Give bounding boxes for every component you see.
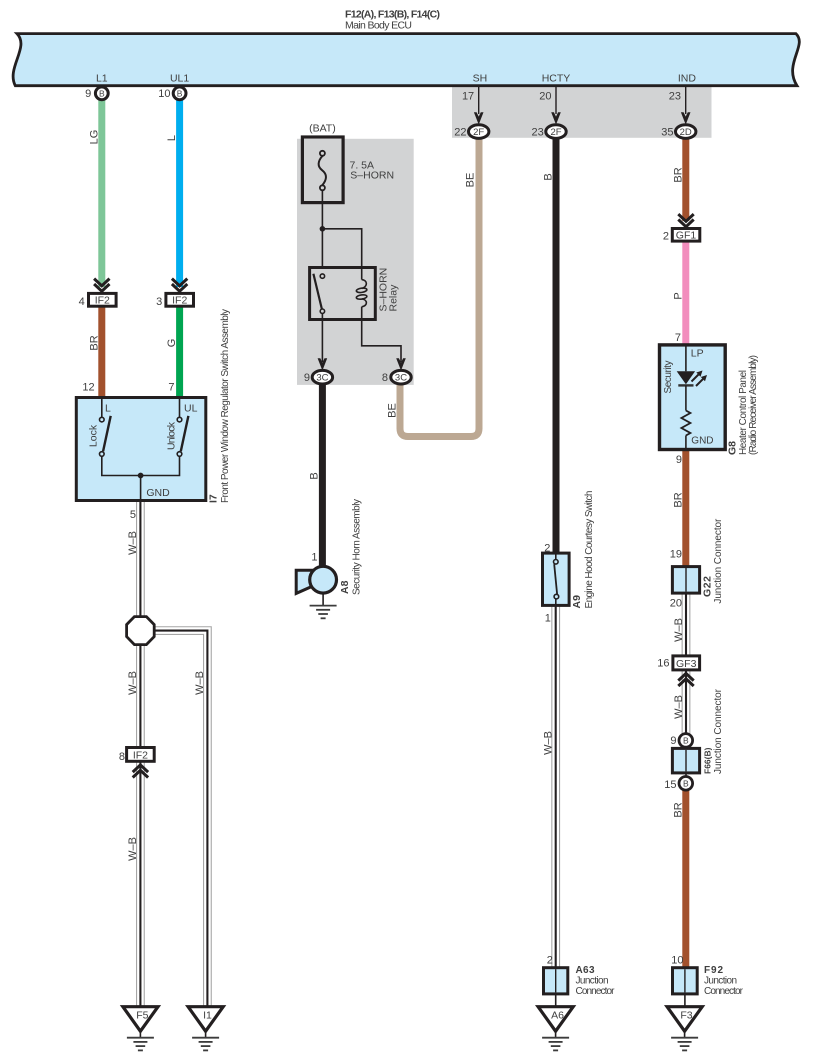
svg-text:B: B xyxy=(177,89,183,99)
svg-text:12: 12 xyxy=(82,382,94,394)
svg-text:GND: GND xyxy=(146,487,170,499)
svg-text:L: L xyxy=(166,135,178,141)
svg-text:Security Horn Assembly: Security Horn Assembly xyxy=(352,499,363,595)
svg-text:Security: Security xyxy=(663,361,674,394)
svg-text:LP: LP xyxy=(691,348,704,360)
svg-text:Engine Hood Courtesy Switch: Engine Hood Courtesy Switch xyxy=(584,491,595,609)
svg-text:20: 20 xyxy=(670,598,682,610)
svg-text:20: 20 xyxy=(539,90,551,102)
svg-text:1: 1 xyxy=(545,613,551,625)
svg-text:35: 35 xyxy=(661,127,673,139)
svg-text:17: 17 xyxy=(462,90,474,102)
svg-text:L: L xyxy=(105,402,111,414)
svg-text:A8: A8 xyxy=(339,580,351,594)
svg-text:BE: BE xyxy=(387,403,399,418)
svg-text:UL: UL xyxy=(184,402,198,414)
svg-text:B: B xyxy=(683,736,689,746)
svg-text:Junction Connector: Junction Connector xyxy=(713,518,724,604)
svg-text:8: 8 xyxy=(119,751,125,763)
svg-text:(Radio Receiver Assembly): (Radio Receiver Assembly) xyxy=(748,355,759,455)
svg-text:IND: IND xyxy=(678,72,697,84)
svg-text:F3: F3 xyxy=(680,1009,692,1021)
svg-text:B: B xyxy=(543,173,555,180)
svg-text:23: 23 xyxy=(669,90,681,102)
svg-text:P: P xyxy=(673,292,685,299)
svg-text:19: 19 xyxy=(670,549,682,561)
svg-text:Main Body ECU: Main Body ECU xyxy=(345,20,412,32)
svg-text:GF1: GF1 xyxy=(676,230,697,242)
svg-text:9: 9 xyxy=(676,454,682,466)
svg-text:B: B xyxy=(99,89,105,99)
svg-text:BE: BE xyxy=(465,173,477,188)
svg-text:GND: GND xyxy=(691,435,713,446)
svg-text:A6: A6 xyxy=(551,1009,564,1021)
svg-text:B: B xyxy=(683,779,689,789)
svg-text:2D: 2D xyxy=(680,127,692,138)
svg-text:3: 3 xyxy=(156,296,162,308)
svg-text:W–B: W–B xyxy=(542,731,554,755)
svg-text:BR: BR xyxy=(673,167,685,182)
svg-text:BR: BR xyxy=(673,492,685,507)
svg-text:GF3: GF3 xyxy=(676,658,697,670)
svg-text:G8: G8 xyxy=(727,441,739,455)
svg-text:LG: LG xyxy=(88,130,100,145)
svg-text:I1: I1 xyxy=(203,1009,212,1021)
svg-text:10: 10 xyxy=(158,88,170,100)
svg-text:2: 2 xyxy=(547,955,553,967)
svg-text:Connector: Connector xyxy=(576,986,616,997)
svg-text:F66(B): F66(B) xyxy=(703,747,713,774)
svg-text:W–B: W–B xyxy=(127,531,139,555)
svg-text:G22: G22 xyxy=(702,576,714,597)
svg-text:5: 5 xyxy=(130,509,136,521)
svg-text:IF2: IF2 xyxy=(95,294,110,306)
svg-text:8: 8 xyxy=(382,372,388,384)
svg-text:A9: A9 xyxy=(571,595,583,609)
svg-text:L1: L1 xyxy=(96,72,108,84)
svg-text:W–B: W–B xyxy=(127,837,139,861)
svg-text:7: 7 xyxy=(168,382,174,394)
svg-text:9: 9 xyxy=(670,735,676,747)
svg-text:Lock: Lock xyxy=(87,424,99,447)
svg-text:7: 7 xyxy=(675,332,681,344)
svg-text:G: G xyxy=(166,339,178,348)
svg-text:SH: SH xyxy=(473,72,488,84)
svg-text:BR: BR xyxy=(673,802,685,817)
svg-text:A63: A63 xyxy=(576,965,595,976)
svg-text:3C: 3C xyxy=(316,373,328,384)
svg-text:Junction Connector: Junction Connector xyxy=(713,688,724,774)
svg-text:UL1: UL1 xyxy=(170,72,189,84)
svg-text:2: 2 xyxy=(663,231,669,243)
svg-text:3C: 3C xyxy=(395,373,407,384)
svg-text:Relay: Relay xyxy=(388,284,400,312)
svg-text:Unlock: Unlock xyxy=(165,421,177,450)
svg-text:9: 9 xyxy=(304,372,310,384)
svg-text:2F: 2F xyxy=(550,127,561,138)
svg-text:15: 15 xyxy=(664,779,676,791)
svg-text:2: 2 xyxy=(544,543,550,555)
svg-text:F92: F92 xyxy=(704,965,723,976)
svg-text:W–B: W–B xyxy=(194,671,206,695)
svg-text:F5: F5 xyxy=(136,1009,148,1021)
svg-text:16: 16 xyxy=(657,658,669,670)
svg-text:23: 23 xyxy=(532,127,544,139)
svg-text:Front Power Window Regulator S: Front Power Window Regulator Switch Asse… xyxy=(220,309,231,503)
svg-text:IF2: IF2 xyxy=(172,294,187,306)
svg-text:4: 4 xyxy=(79,296,85,308)
svg-text:HCTY: HCTY xyxy=(542,72,571,84)
svg-text:22: 22 xyxy=(454,127,466,139)
svg-text:(BAT): (BAT) xyxy=(309,123,336,135)
svg-text:W–B: W–B xyxy=(673,695,685,719)
svg-text:9: 9 xyxy=(85,88,91,100)
svg-text:I7: I7 xyxy=(208,494,220,503)
svg-text:Connector: Connector xyxy=(704,986,744,997)
svg-text:S–HORN: S–HORN xyxy=(350,169,394,181)
svg-text:10: 10 xyxy=(671,955,683,967)
svg-text:W–B: W–B xyxy=(673,618,685,642)
svg-text:BR: BR xyxy=(88,335,100,350)
svg-text:IF2: IF2 xyxy=(133,749,148,761)
svg-text:1: 1 xyxy=(311,552,317,564)
svg-text:W–B: W–B xyxy=(127,671,139,695)
svg-text:2F: 2F xyxy=(473,127,484,138)
svg-text:B: B xyxy=(309,472,321,479)
